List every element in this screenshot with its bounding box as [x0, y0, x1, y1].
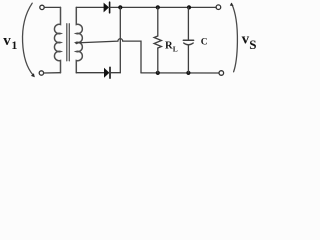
resistor RL — [157, 7, 159, 36]
node RL top — [156, 5, 160, 9]
svg-text:v: v — [3, 33, 11, 49]
wire bottom-left — [44, 72, 61, 74]
wire secondary bottom to D2 — [76, 72, 104, 74]
svg-text:S: S — [249, 37, 256, 52]
node C top — [187, 5, 191, 9]
node C bottom — [186, 71, 190, 75]
terminal top-right — [216, 5, 221, 10]
source bracket left — [23, 3, 34, 75]
wire top-left — [44, 6, 60, 8]
transformer T1 secondary winding — [76, 7, 82, 72]
arrowhead of right bracket — [230, 3, 234, 6]
wire cathode vertical — [119, 7, 121, 72]
output bracket right — [232, 4, 238, 72]
wire bottom rail — [141, 72, 219, 74]
transformer T1 core — [66, 24, 68, 61]
diode D2 — [104, 68, 109, 78]
node cathode junction — [118, 5, 122, 9]
arrowhead of left bracket — [31, 73, 35, 77]
terminal top-left — [40, 5, 44, 9]
node center tap — [75, 42, 78, 45]
wire D2 to vertical — [110, 72, 120, 74]
svg-text:1: 1 — [11, 38, 17, 52]
wire secondary top to D1 — [76, 6, 103, 8]
svg-text:C: C — [201, 38, 208, 48]
label RL — [165, 40, 178, 53]
svg-text:R: R — [165, 40, 173, 51]
wire center tap with hop over cathode wire — [77, 39, 141, 73]
terminal bottom-right — [219, 71, 224, 76]
terminal bottom-left — [39, 71, 43, 75]
wire top rail — [110, 6, 217, 8]
label vS — [242, 32, 257, 52]
transformer T1 primary winding — [54, 7, 60, 72]
capacitor C — [187, 7, 189, 39]
label v1 — [3, 33, 17, 52]
node RL bottom — [156, 71, 160, 75]
diode D1 — [104, 3, 109, 13]
svg-text:L: L — [173, 44, 178, 53]
